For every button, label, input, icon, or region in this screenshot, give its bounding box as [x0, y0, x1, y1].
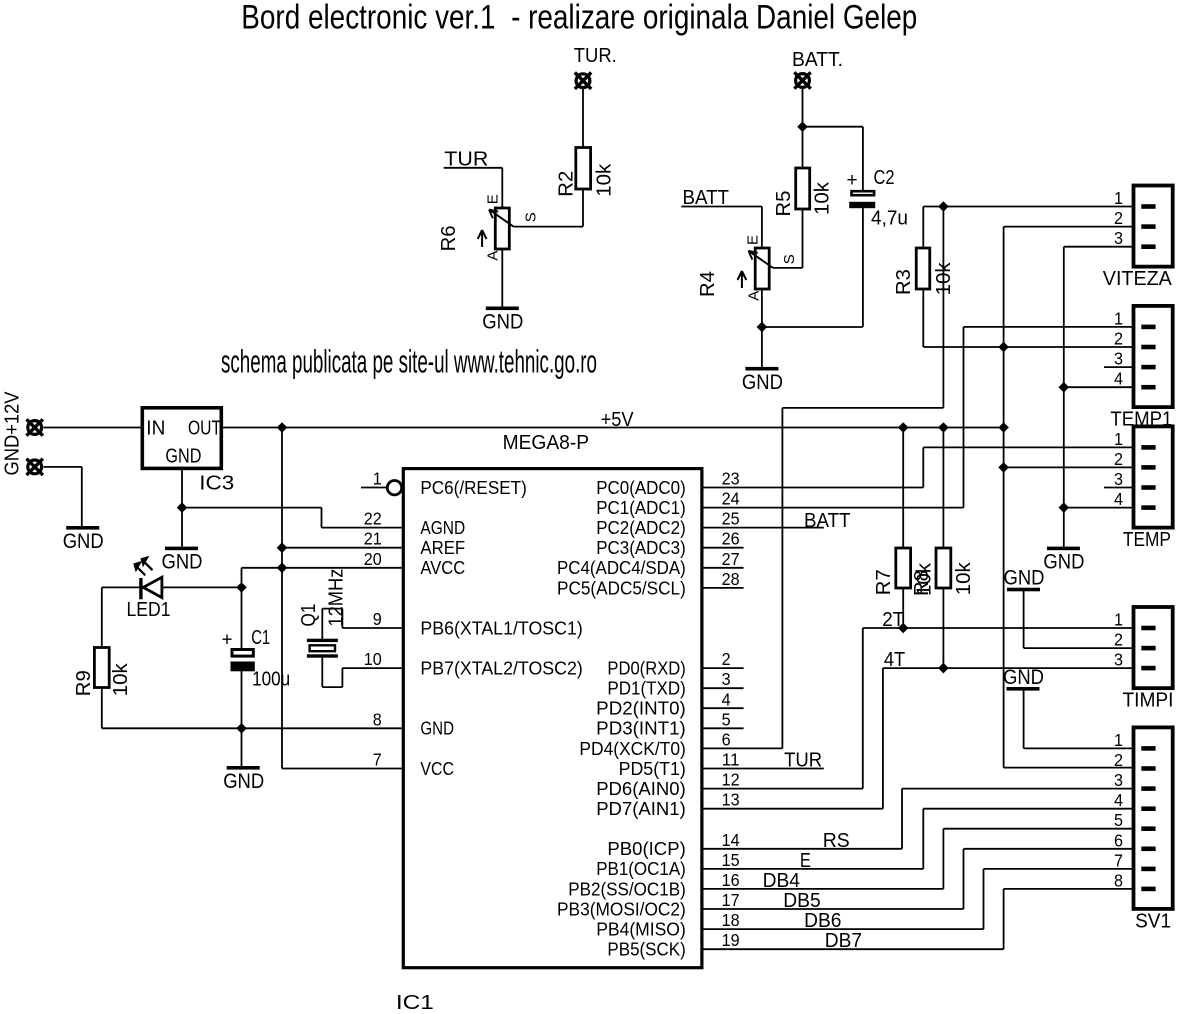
svg-text:GND: GND	[742, 370, 783, 394]
svg-text:PB2(SS/OC1B): PB2(SS/OC1B)	[568, 878, 686, 899]
svg-text:MEGA8-P: MEGA8-P	[503, 431, 589, 454]
svg-text:4,7u: 4,7u	[871, 208, 908, 230]
svg-text:GND: GND	[1003, 665, 1044, 689]
svg-text:10k: 10k	[913, 562, 935, 596]
svg-text:2: 2	[1114, 208, 1123, 228]
svg-text:2: 2	[722, 649, 731, 669]
svg-text:GND+12V: GND+12V	[1, 391, 23, 476]
svg-text:S: S	[522, 212, 539, 222]
svg-text:TUR.: TUR.	[574, 45, 617, 67]
svg-text:18: 18	[722, 910, 740, 930]
svg-text:13: 13	[722, 790, 740, 810]
svg-text:IN: IN	[146, 417, 165, 439]
svg-text:12: 12	[722, 770, 740, 790]
svg-text:1: 1	[373, 469, 382, 489]
svg-text:E: E	[800, 850, 811, 872]
svg-text:27: 27	[722, 549, 740, 569]
svg-text:GND: GND	[63, 529, 104, 553]
svg-text:4T: 4T	[884, 649, 905, 671]
svg-text:AVCC: AVCC	[420, 557, 465, 578]
svg-text:3: 3	[1114, 650, 1123, 670]
svg-text:Bord electronic ver.1 - reali: Bord electronic ver.1 - realizare origin…	[241, 0, 917, 37]
svg-text:E: E	[484, 194, 501, 204]
svg-text:GND: GND	[162, 550, 203, 574]
svg-text:4: 4	[1114, 790, 1123, 810]
svg-text:17: 17	[722, 890, 740, 910]
svg-text:R2: R2	[555, 171, 577, 197]
svg-text:2: 2	[1114, 750, 1123, 770]
svg-text:24: 24	[722, 489, 740, 509]
svg-text:10: 10	[364, 649, 382, 669]
svg-text:GND: GND	[420, 718, 454, 739]
svg-text:25: 25	[722, 509, 740, 529]
svg-text:1: 1	[1114, 429, 1123, 449]
svg-text:TUR: TUR	[444, 149, 488, 171]
svg-text:PC6(/RESET): PC6(/RESET)	[420, 477, 526, 498]
svg-text:2: 2	[1114, 630, 1123, 650]
svg-text:PB1(OC1A): PB1(OC1A)	[596, 858, 686, 879]
svg-text:PB6(XTAL1/TOSC1): PB6(XTAL1/TOSC1)	[420, 617, 582, 638]
svg-text:GND: GND	[482, 310, 523, 334]
svg-text:5: 5	[722, 709, 731, 729]
svg-text:PC2(ADC2): PC2(ADC2)	[596, 517, 686, 538]
svg-text:26: 26	[722, 529, 740, 549]
svg-text:PC4(ADC4/SDA): PC4(ADC4/SDA)	[557, 557, 686, 578]
svg-text:1: 1	[1114, 730, 1123, 750]
svg-text:10k: 10k	[594, 163, 616, 197]
svg-text:2: 2	[1114, 329, 1123, 349]
svg-text:10k: 10k	[953, 561, 975, 595]
svg-text:PC0(ADC0): PC0(ADC0)	[596, 477, 686, 498]
svg-text:23: 23	[722, 469, 740, 489]
svg-text:21: 21	[364, 529, 382, 549]
svg-text:AREF: AREF	[420, 537, 465, 558]
svg-text:1: 1	[1114, 188, 1123, 208]
svg-text:+: +	[222, 630, 233, 651]
svg-text:C1: C1	[251, 627, 270, 649]
svg-text:R9: R9	[73, 670, 95, 696]
svg-text:PD0(RXD): PD0(RXD)	[607, 658, 685, 679]
svg-text:3: 3	[1114, 228, 1123, 248]
svg-text:10k: 10k	[933, 261, 955, 295]
svg-text:10k: 10k	[812, 181, 834, 215]
svg-text:2T: 2T	[882, 609, 904, 631]
svg-text:BATT.: BATT.	[792, 49, 843, 71]
svg-text:DB7: DB7	[825, 930, 862, 952]
svg-text:4: 4	[1114, 369, 1123, 389]
svg-text:IC3: IC3	[199, 473, 234, 495]
svg-text:PD3(INT1): PD3(INT1)	[596, 718, 686, 739]
svg-text:PC1(ADC1): PC1(ADC1)	[596, 497, 686, 518]
svg-text:PB0(ICP): PB0(ICP)	[607, 838, 685, 859]
svg-text:15: 15	[722, 850, 740, 870]
svg-text:RS: RS	[823, 830, 850, 852]
svg-text:S: S	[781, 254, 798, 264]
svg-text:PD5(T1): PD5(T1)	[619, 758, 686, 779]
svg-text:PB5(SCK): PB5(SCK)	[607, 939, 685, 960]
svg-text:R3: R3	[893, 269, 915, 295]
svg-text:5: 5	[1114, 810, 1123, 830]
svg-text:R7: R7	[873, 569, 895, 595]
svg-text:11: 11	[722, 750, 740, 770]
svg-text:DB4: DB4	[763, 870, 800, 892]
svg-text:DB5: DB5	[783, 890, 820, 912]
svg-text:LED1: LED1	[127, 599, 171, 621]
svg-text:8: 8	[1114, 870, 1123, 890]
svg-text:R5: R5	[773, 191, 795, 217]
svg-text:PC5(ADC5/SCL): PC5(ADC5/SCL)	[557, 577, 686, 598]
svg-text:16: 16	[722, 870, 740, 890]
svg-text:TUR: TUR	[784, 749, 822, 771]
svg-text:AGND: AGND	[420, 517, 465, 538]
svg-text:GND: GND	[223, 769, 264, 793]
svg-text:IC1: IC1	[396, 992, 434, 1014]
svg-text:1: 1	[1114, 610, 1123, 630]
svg-text:4: 4	[722, 689, 731, 709]
svg-text:6: 6	[1114, 830, 1123, 850]
svg-text:+: +	[847, 170, 858, 191]
svg-text:7: 7	[1114, 850, 1123, 870]
svg-text:14: 14	[722, 830, 740, 850]
svg-text:Q1: Q1	[298, 604, 320, 627]
svg-text:E: E	[744, 235, 761, 245]
svg-text:22: 22	[364, 509, 382, 529]
svg-text:28: 28	[722, 569, 740, 589]
svg-text:3: 3	[1114, 469, 1123, 489]
svg-text:A: A	[485, 251, 502, 261]
svg-text:4: 4	[1114, 489, 1123, 509]
svg-text:1: 1	[1114, 308, 1123, 328]
svg-text:GND: GND	[165, 446, 201, 468]
svg-text:7: 7	[373, 750, 382, 770]
svg-text:+5V: +5V	[601, 409, 635, 431]
svg-text:TIMPI: TIMPI	[1123, 690, 1174, 712]
svg-text:TEMP: TEMP	[1123, 529, 1171, 551]
svg-text:12MHz: 12MHz	[326, 569, 348, 627]
svg-text:GND: GND	[1004, 566, 1045, 590]
svg-text:2: 2	[1114, 449, 1123, 469]
svg-text:GND: GND	[1043, 550, 1084, 574]
svg-text:schema publicata pe site-ul ww: schema publicata pe site-ul www.tehnic.g…	[221, 344, 597, 380]
svg-text:3: 3	[1114, 770, 1123, 790]
svg-text:BATT: BATT	[683, 187, 730, 209]
svg-text:3: 3	[722, 669, 731, 689]
svg-text:R6: R6	[438, 225, 460, 251]
svg-text:100u: 100u	[252, 669, 290, 691]
svg-text:PD1(TXD): PD1(TXD)	[607, 678, 685, 699]
svg-text:8: 8	[373, 709, 382, 729]
svg-text:VITEZA: VITEZA	[1103, 268, 1173, 290]
svg-text:PD2(INT0): PD2(INT0)	[596, 698, 686, 719]
svg-text:C2: C2	[874, 167, 895, 189]
svg-text:VCC: VCC	[420, 758, 454, 779]
svg-text:PD4(XCK/T0): PD4(XCK/T0)	[579, 738, 685, 759]
svg-text:PB3(MOSI/OC2): PB3(MOSI/OC2)	[557, 898, 686, 919]
svg-text:PD7(AIN1): PD7(AIN1)	[596, 798, 686, 819]
svg-text:9: 9	[373, 609, 382, 629]
svg-text:PD6(AIN0): PD6(AIN0)	[596, 778, 686, 799]
svg-text:SV1: SV1	[1135, 910, 1171, 932]
svg-text:BATT: BATT	[804, 510, 851, 532]
svg-text:PB4(MISO): PB4(MISO)	[596, 918, 686, 939]
svg-text:10k: 10k	[110, 662, 132, 696]
svg-text:PB7(XTAL2/TOSC2): PB7(XTAL2/TOSC2)	[420, 658, 582, 679]
svg-text:A: A	[746, 291, 763, 301]
svg-text:DB6: DB6	[804, 910, 841, 932]
svg-text:20: 20	[364, 549, 382, 569]
svg-text:OUT: OUT	[188, 417, 221, 439]
svg-text:19: 19	[722, 930, 740, 950]
svg-text:6: 6	[722, 729, 731, 749]
svg-text:3: 3	[1114, 349, 1123, 369]
svg-text:R4: R4	[697, 271, 719, 297]
svg-text:PC3(ADC3): PC3(ADC3)	[596, 537, 686, 558]
